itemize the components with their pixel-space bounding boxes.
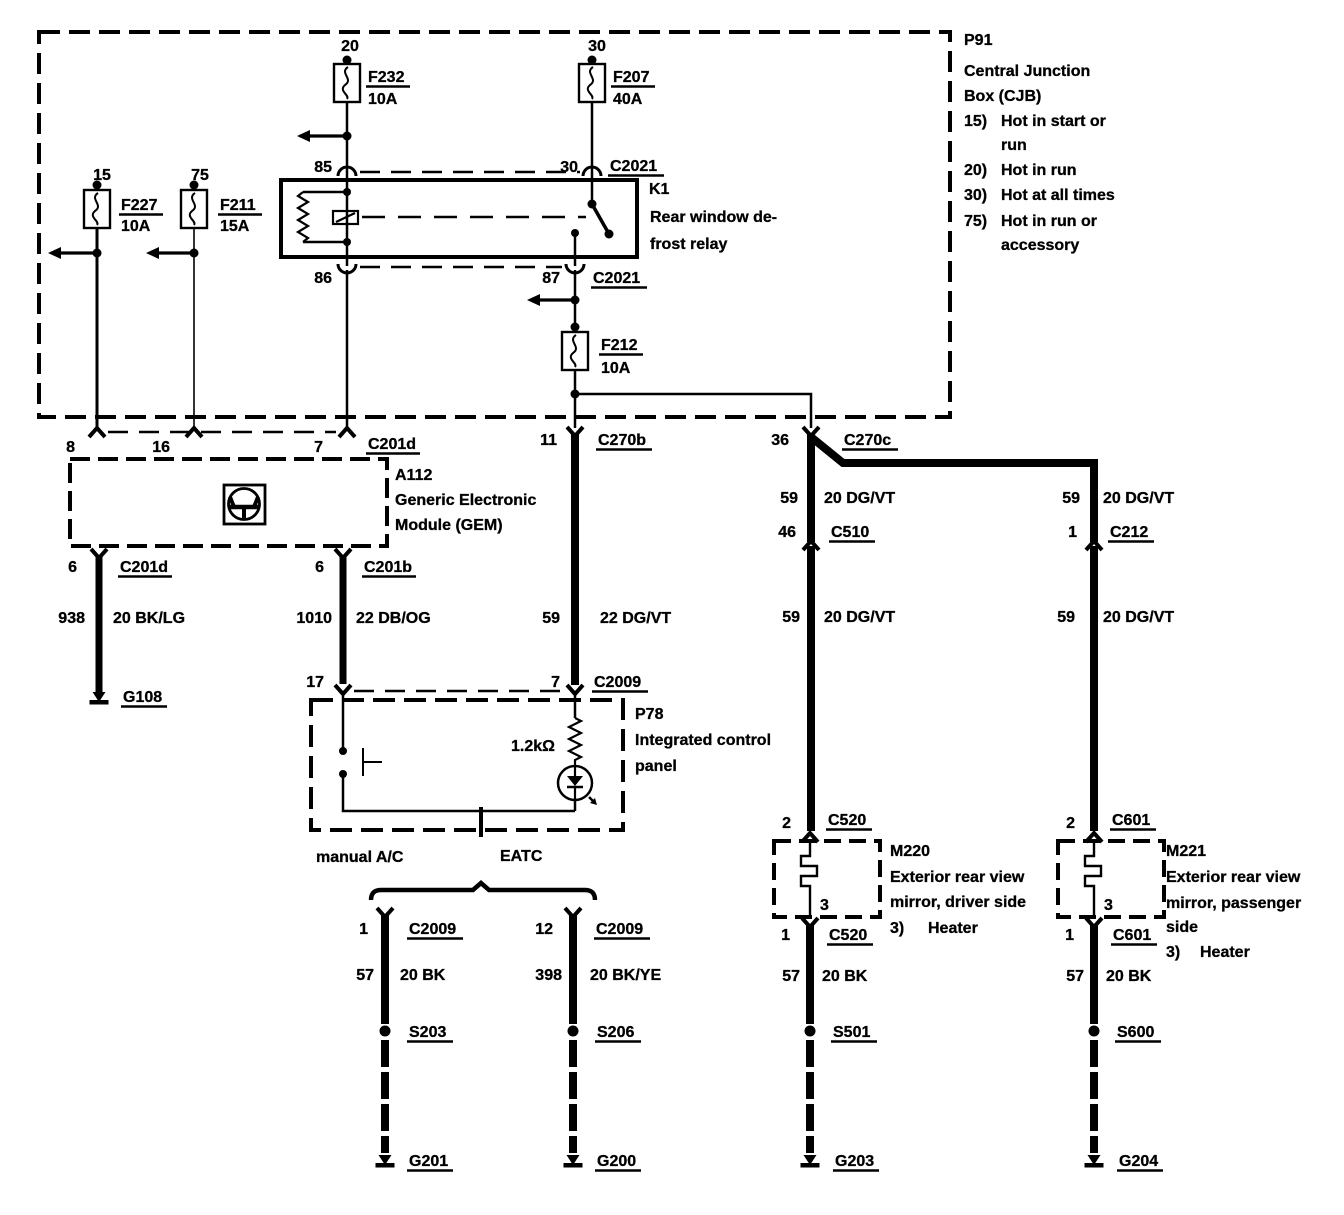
- relay switch: [571, 181, 614, 266]
- svg-text:75): 75): [964, 213, 987, 230]
- svg-text:22 DG/VT: 22 DG/VT: [600, 610, 671, 627]
- P78 internal switch wire: [342, 694, 345, 751]
- svg-text:10A: 10A: [121, 218, 151, 235]
- ground G108: [93, 692, 106, 702]
- svg-text:C201d: C201d: [368, 436, 416, 453]
- brace over C2009 pins: [371, 883, 595, 900]
- svg-text:C2009: C2009: [409, 921, 456, 938]
- svg-text:85: 85: [314, 159, 332, 176]
- wire S501 to ground G203: [806, 1040, 814, 1153]
- svg-text:mirror, driver side: mirror, driver side: [890, 894, 1026, 911]
- svg-text:20 DG/VT: 20 DG/VT: [824, 490, 895, 507]
- branch arrow left of F211 wire: [155, 251, 194, 254]
- svg-text:938: 938: [58, 610, 85, 627]
- ground G203: [804, 1155, 817, 1165]
- LED wire to bottom: [574, 800, 577, 811]
- svg-text:30): 30): [964, 187, 987, 204]
- svg-text:15): 15): [964, 113, 987, 130]
- svg-text:C270c: C270c: [844, 432, 891, 449]
- svg-text:Integrated control: Integrated control: [635, 732, 771, 749]
- svg-text:20: 20: [341, 38, 359, 55]
- svg-text:3: 3: [820, 897, 829, 914]
- svg-text:20 BK/YE: 20 BK/YE: [590, 967, 661, 984]
- steering wheel icon: [224, 485, 265, 524]
- connector C601 pin 1: [1086, 918, 1102, 927]
- switch contacts: [339, 747, 347, 755]
- svg-text:Heater: Heater: [1200, 944, 1250, 961]
- svg-text:20 BK: 20 BK: [822, 968, 868, 985]
- M221 labels: [1166, 843, 1301, 961]
- svg-text:K1: K1: [649, 181, 670, 198]
- svg-text:S206: S206: [597, 1024, 634, 1041]
- relay coil wire pin85 to pin86: [346, 181, 349, 266]
- svg-text:1: 1: [1068, 524, 1077, 541]
- svg-text:C270b: C270b: [598, 432, 646, 449]
- svg-text:C601: C601: [1112, 812, 1150, 829]
- branch arrow left of F227 wire: [57, 251, 97, 254]
- svg-text:G201: G201: [409, 1153, 448, 1170]
- relay coil actuator box: [333, 211, 358, 224]
- wire relay pin 87 to fuse F212: [574, 270, 577, 332]
- svg-text:59: 59: [780, 490, 798, 507]
- svg-text:1: 1: [781, 927, 790, 944]
- connector C2021 dashed link top: [360, 171, 580, 174]
- svg-text:Generic Electronic: Generic Electronic: [395, 492, 536, 509]
- svg-text:11: 11: [540, 432, 557, 449]
- svg-text:20 BK: 20 BK: [1106, 968, 1152, 985]
- junction node below F212: [571, 390, 580, 399]
- wire F212 junction to C270c pin 36: [575, 394, 811, 428]
- svg-text:C510: C510: [831, 524, 869, 541]
- splice S600: [1089, 1026, 1100, 1037]
- wire F232 to relay pin 85: [346, 102, 349, 181]
- svg-text:57: 57: [356, 967, 374, 984]
- svg-text:2: 2: [1066, 815, 1075, 832]
- svg-text:F232: F232: [368, 69, 405, 86]
- wire S203 to ground G201: [381, 1040, 389, 1153]
- svg-text:P78: P78: [635, 706, 664, 723]
- ground G204: [1088, 1155, 1101, 1165]
- svg-text:Module (GEM): Module (GEM): [395, 517, 503, 534]
- svg-text:M220: M220: [890, 843, 930, 860]
- svg-text:S501: S501: [833, 1024, 870, 1041]
- svg-text:2: 2: [782, 815, 791, 832]
- svg-text:C201b: C201b: [364, 559, 412, 576]
- svg-text:Hot in run or: Hot in run or: [1001, 213, 1097, 230]
- svg-text:6: 6: [68, 559, 77, 576]
- switch actuator: [362, 748, 364, 776]
- wire circuit 57 20 BK driver: [806, 925, 814, 1024]
- mirror M220 box: [774, 841, 880, 917]
- svg-text:Heater: Heater: [928, 920, 978, 937]
- svg-text:3): 3): [890, 920, 904, 937]
- svg-text:10A: 10A: [601, 360, 631, 377]
- svg-text:C520: C520: [829, 927, 867, 944]
- splice S501: [805, 1026, 816, 1037]
- svg-text:Exterior rear view: Exterior rear view: [1166, 869, 1301, 886]
- svg-text:mirror, passenger: mirror, passenger: [1166, 895, 1301, 912]
- svg-text:side: side: [1166, 919, 1198, 936]
- M221 heater element: [1085, 841, 1101, 915]
- fuse F211 15A: [181, 167, 262, 235]
- branch arrow left of F232 wire: [306, 134, 347, 137]
- wire circuit 57 20 BK: [381, 915, 389, 1024]
- relay coil: [298, 188, 351, 246]
- svg-text:57: 57: [782, 968, 800, 985]
- wire S600 to ground G204: [1090, 1040, 1098, 1153]
- svg-text:57: 57: [1066, 968, 1084, 985]
- wire F227 down to C201d pin 8: [96, 228, 99, 429]
- svg-text:Central Junction: Central Junction: [964, 63, 1090, 80]
- svg-text:46: 46: [778, 524, 796, 541]
- svg-text:S203: S203: [409, 1024, 446, 1041]
- svg-text:59: 59: [782, 609, 800, 626]
- central junction box P91 outline: [39, 32, 950, 417]
- svg-text:17: 17: [306, 674, 324, 691]
- svg-text:G204: G204: [1119, 1153, 1158, 1170]
- ground G200: [567, 1155, 580, 1165]
- svg-text:A112: A112: [395, 467, 432, 484]
- svg-text:10A: 10A: [368, 91, 398, 108]
- P78 bottom internal wire: [343, 774, 575, 811]
- svg-text:C2009: C2009: [596, 921, 643, 938]
- wire circuit 938 20 BK/LG: [96, 556, 103, 693]
- svg-text:C520: C520: [828, 812, 866, 829]
- svg-text:1: 1: [359, 921, 368, 938]
- svg-text:EATC: EATC: [500, 848, 543, 865]
- relay K1 labels: [649, 181, 777, 253]
- mirror M221 box: [1058, 841, 1164, 917]
- svg-text:20 BK: 20 BK: [400, 967, 446, 984]
- svg-text:20 DG/VT: 20 DG/VT: [1103, 609, 1174, 626]
- svg-text:8: 8: [66, 439, 75, 456]
- svg-text:59: 59: [1062, 490, 1080, 507]
- svg-text:F207: F207: [613, 69, 650, 86]
- relay actuator dashed link: [362, 216, 586, 219]
- M220 heater element: [801, 841, 817, 915]
- svg-text:C212: C212: [1110, 524, 1148, 541]
- connector C2009 dashed link: [354, 690, 564, 693]
- ground G201: [379, 1155, 392, 1165]
- svg-text:15A: 15A: [220, 218, 250, 235]
- wire F207 to relay pin 30: [591, 102, 594, 181]
- svg-text:C2009: C2009: [594, 674, 641, 691]
- svg-text:run: run: [1001, 137, 1027, 154]
- wire circuit 398 20 BK/YE: [569, 915, 577, 1024]
- connector C520 pin 1: [802, 918, 818, 927]
- integrated control panel P78 box: [311, 700, 623, 830]
- svg-text:accessory: accessory: [1001, 237, 1079, 254]
- svg-text:Box (CJB): Box (CJB): [964, 88, 1041, 105]
- svg-text:M221: M221: [1166, 843, 1206, 860]
- wire F212 to C270b pin 11: [574, 370, 577, 428]
- wire circuit 1010 22 DB/OG: [340, 556, 347, 684]
- svg-text:1010: 1010: [296, 610, 332, 627]
- svg-text:16: 16: [152, 439, 170, 456]
- svg-text:Exterior rear view: Exterior rear view: [890, 869, 1025, 886]
- svg-text:7: 7: [551, 674, 560, 691]
- fuse F227 10A: [84, 167, 163, 235]
- svg-text:40A: 40A: [613, 91, 643, 108]
- svg-text:6: 6: [315, 559, 324, 576]
- svg-text:F212: F212: [601, 337, 638, 354]
- wire F211 down to C201d pin 16: [193, 228, 195, 429]
- M220 labels: [890, 843, 1026, 937]
- svg-text:G200: G200: [597, 1153, 636, 1170]
- splice S203: [380, 1026, 391, 1037]
- LED indicator: [558, 766, 597, 805]
- wire circuit 57 20 BK passenger: [1090, 925, 1098, 1024]
- svg-text:F227: F227: [121, 197, 158, 214]
- wire relay pin 86 to C201d pin 7: [346, 270, 349, 429]
- branch arrow left of pin 87 wire: [536, 298, 575, 301]
- svg-text:1.2kΩ: 1.2kΩ: [511, 738, 555, 755]
- connector C201d dashed link: [108, 431, 336, 434]
- svg-text:panel: panel: [635, 758, 677, 775]
- wire S206 to ground G200: [569, 1040, 577, 1153]
- wire C270c to C510: [807, 434, 815, 542]
- svg-text:30: 30: [588, 38, 606, 55]
- svg-text:Hot in start or: Hot in start or: [1001, 113, 1106, 130]
- fuse F212 10A: [562, 323, 643, 378]
- svg-text:20 BK/LG: 20 BK/LG: [113, 610, 185, 627]
- svg-text:Hot at all times: Hot at all times: [1001, 187, 1115, 204]
- svg-text:59: 59: [542, 610, 560, 627]
- P78 output stub: [479, 807, 483, 837]
- svg-text:398: 398: [535, 967, 562, 984]
- svg-text:86: 86: [314, 270, 332, 287]
- wire circuit 59 C510 to C520: [807, 546, 815, 831]
- relay K1 box: [281, 180, 637, 257]
- svg-text:C601: C601: [1113, 927, 1151, 944]
- svg-text:20): 20): [964, 162, 987, 179]
- svg-text:F211: F211: [220, 197, 256, 214]
- wire circuit 59 22 DG/VT C270b to C2009 pin 7: [571, 434, 579, 685]
- connector C2021 dashed link bottom: [360, 266, 562, 269]
- svg-text:36: 36: [771, 432, 789, 449]
- wire branch C270c to C212: [811, 437, 1094, 542]
- svg-text:87: 87: [542, 270, 560, 287]
- svg-text:12: 12: [535, 921, 553, 938]
- svg-text:59: 59: [1057, 609, 1075, 626]
- svg-text:C2021: C2021: [610, 158, 657, 175]
- fuse F207 40A: [579, 38, 655, 108]
- svg-text:C201d: C201d: [120, 559, 168, 576]
- svg-text:3): 3): [1166, 944, 1180, 961]
- legend text P91 Central Junction Box: [964, 32, 1115, 254]
- splice S206: [568, 1026, 579, 1037]
- svg-text:20 DG/VT: 20 DG/VT: [1103, 490, 1174, 507]
- wire circuit 59 C212 to C601: [1090, 546, 1098, 831]
- svg-text:S600: S600: [1117, 1024, 1154, 1041]
- fuse F232 10A: [334, 38, 410, 108]
- svg-text:frost relay: frost relay: [650, 236, 727, 253]
- resistor 1.2k ohm: [574, 694, 577, 718]
- svg-text:Hot in run: Hot in run: [1001, 162, 1077, 179]
- svg-text:1: 1: [1065, 927, 1074, 944]
- svg-text:manual A/C: manual A/C: [316, 849, 404, 866]
- svg-text:22 DB/OG: 22 DB/OG: [356, 610, 431, 627]
- svg-text:30: 30: [560, 159, 578, 176]
- svg-text:Rear window de-: Rear window de-: [650, 209, 777, 226]
- GEM labels: [395, 467, 536, 534]
- generic electronic module A112 box: [70, 459, 387, 546]
- P78 labels: [635, 706, 771, 775]
- svg-text:C2021: C2021: [593, 270, 640, 287]
- svg-text:G108: G108: [123, 689, 162, 706]
- svg-text:G203: G203: [835, 1153, 874, 1170]
- svg-text:7: 7: [314, 439, 323, 456]
- svg-text:20 DG/VT: 20 DG/VT: [824, 609, 895, 626]
- svg-text:3: 3: [1104, 897, 1113, 914]
- svg-text:P91: P91: [964, 32, 993, 49]
